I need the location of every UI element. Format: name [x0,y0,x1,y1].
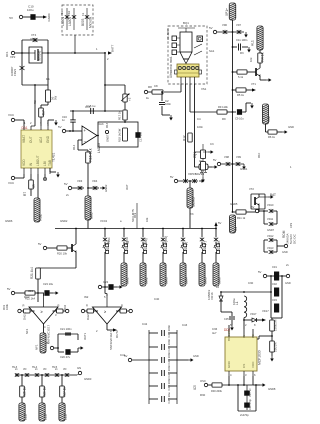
svg-text:VD7: VD7 [236,23,242,27]
svg-text:VD1: VD1 [60,10,64,16]
svg-text:10k: 10k [249,57,253,62]
svg-text:5V: 5V [218,221,222,225]
svg-text:C41: C41 [120,353,126,357]
svg-text:SN74LVC1G17: SN74LVC1G17 [109,330,113,350]
svg-text:C49 10u: C49 10u [167,392,171,403]
svg-text:R9 110k: R9 110k [218,105,228,109]
svg-text:GND8: GND8 [268,387,276,391]
svg-text:R4 1k: R4 1k [260,52,264,62]
svg-text:DA2.2: DA2.2 [86,312,90,320]
svg-text:VD8: VD8 [224,155,230,159]
svg-text:VD: VD [63,368,67,371]
svg-text:L2: L2 [216,285,220,289]
svg-text:GND5: GND5 [230,202,238,206]
svg-text:150k/1%: 150k/1% [274,319,278,331]
svg-text:SW4: SW4 [185,277,189,284]
svg-text:LED: LED [44,413,48,420]
svg-text:GND: GND [193,354,199,358]
svg-text:DA2: DA2 [24,295,30,299]
svg-text:1k: 1k [32,184,36,188]
svg-text:CS: CS [242,364,246,368]
svg-text:VT2: VT2 [249,187,254,191]
svg-text:C21 100n: C21 100n [60,327,72,331]
svg-text:VD14: VD14 [107,237,111,244]
svg-text:R: R [23,304,25,308]
svg-text:LM258: LM258 [97,143,101,153]
svg-text:R27 1k: R27 1k [63,387,67,397]
svg-text:VD3: VD3 [77,179,83,183]
svg-text:VD17: VD17 [250,312,257,316]
svg-text:HL1: HL1 [251,40,255,46]
svg-text:R30 200k: R30 200k [211,389,223,393]
svg-text:GND6: GND6 [5,219,13,223]
svg-text:X4: X4 [234,227,238,231]
svg-text:VD2: VD2 [67,10,71,16]
svg-text:RF1: RF1 [5,51,9,57]
svg-text:S1: S1 [126,240,130,244]
svg-text:R7: R7 [23,192,27,196]
svg-text:100n: 100n [165,102,171,106]
svg-text:GND2: GND2 [104,184,108,192]
svg-text:C9 10u: C9 10u [235,117,244,121]
svg-text:C32: C32 [272,282,277,286]
svg-text:SW3: SW3 [165,277,169,284]
svg-text:R2: R2 [33,100,37,104]
svg-text:HL5: HL5 [52,365,58,369]
svg-text:C44 100n: C44 100n [167,324,171,337]
svg-text:R26 1k: R26 1k [43,387,47,397]
svg-text:R21 4k4: R21 4k4 [30,267,34,279]
svg-text:VT3: VT3 [30,37,36,41]
svg-text:MIC: MIC [90,212,94,219]
svg-text:R12: R12 [182,135,186,141]
svg-text:2x470p: 2x470p [240,413,249,417]
svg-text:LED: LED [64,413,68,420]
svg-text:R1: R1 [46,77,50,81]
svg-text:VCC: VCC [8,113,14,117]
svg-text:C38 470p: C38 470p [248,398,252,410]
svg-text:GND: GND [46,135,50,143]
svg-text:BOOST: BOOST [227,330,231,341]
svg-text:DA1: DA1 [22,126,28,130]
svg-text:5V: 5V [251,205,255,209]
svg-text:R19: R19 [133,212,137,218]
svg-text:5W: 5W [54,95,58,100]
svg-text:R: R [58,304,60,308]
svg-text:HL3: HL3 [12,365,18,369]
svg-text:1n: 1n [62,118,65,122]
svg-text:5V: 5V [46,341,50,345]
svg-text:R17 1k: R17 1k [118,111,122,120]
svg-text:C3: C3 [210,142,214,146]
svg-text:5V: 5V [38,242,42,246]
svg-text:SW2: SW2 [145,277,149,284]
svg-text:R: R [86,304,88,308]
svg-text:C22: C22 [103,280,109,284]
svg-text:4u7: 4u7 [212,331,217,335]
svg-text:Microtik: Microtik [89,16,93,28]
svg-text:HC-SR04: HC-SR04 [166,28,170,40]
svg-text:C15: C15 [85,105,91,109]
svg-text:C33: C33 [272,298,277,302]
svg-text:R13: R13 [105,122,109,128]
svg-text:GND9: GND9 [47,13,51,21]
svg-text:R8: R8 [148,85,152,89]
svg-text:GND7: GND7 [106,134,110,142]
svg-text:1N5819: 1N5819 [207,289,211,300]
svg-text:DA3: DA3 [98,122,104,126]
svg-text:VD5/BAV99: VD5/BAV99 [188,172,204,176]
svg-text:VCC: VCC [8,181,14,185]
svg-text:C31: C31 [272,265,277,269]
svg-text:C40: C40 [154,297,160,301]
svg-text:X3: X3 [190,212,194,216]
svg-text:100u: 100u [232,298,236,305]
svg-text:GND: GND [285,281,291,285]
svg-text:IN2: IN2 [84,295,89,299]
svg-text:C23: C23 [28,289,34,293]
svg-text:R5 1k: R5 1k [237,93,245,97]
svg-text:GND7: GND7 [267,228,275,232]
svg-text:C48 100n: C48 100n [167,377,171,390]
svg-text:IN: IN [242,335,246,338]
svg-text:10k: 10k [145,217,149,222]
svg-text:C42: C42 [142,322,148,326]
svg-text:BQ1: BQ1 [183,21,189,25]
svg-text:R10: R10 [257,152,261,158]
svg-text:TL431: TL431 [52,153,56,162]
svg-text:MCP1630: MCP1630 [258,350,262,365]
svg-text:GND: GND [288,125,294,129]
svg-text:VD: VD [43,368,47,371]
svg-text:5V: 5V [58,125,62,129]
svg-text:LED: LED [24,413,28,420]
svg-text:5V: 5V [64,182,68,186]
svg-text:GND2: GND2 [60,219,68,223]
svg-text:VDD: VDD [251,361,255,368]
svg-text:+2: +2 [128,97,132,101]
svg-text:BAT: BAT [270,193,276,197]
svg-text:5V: 5V [170,175,174,179]
svg-text:FB: FB [251,334,255,338]
svg-text:16k/1%: 16k/1% [274,342,278,352]
svg-text:C43: C43 [182,323,188,327]
svg-text:VD4: VD4 [92,179,98,183]
svg-text:5V: 5V [209,26,213,30]
svg-text:C45 100n: C45 100n [167,338,171,351]
svg-text:R14: R14 [72,144,76,150]
svg-text:100u: 100u [27,8,34,12]
svg-text:C23 10u: C23 10u [43,282,54,286]
svg-text:S4 W(fns): S4 W(fns) [164,236,168,250]
svg-text:ADJ: ADJ [39,137,43,143]
svg-text:NF1: NF1 [35,344,39,350]
svg-text:VT1: VT1 [251,82,256,86]
svg-text:SW1: SW1 [126,277,130,284]
svg-text:R9: R9 [222,117,226,121]
svg-text:GN: GN [77,366,81,370]
svg-text:HL2: HL2 [267,116,271,122]
svg-text:C20 47u: C20 47u [60,355,71,359]
svg-text:LA001: LA001 [61,17,65,26]
svg-text:VD10: VD10 [267,203,274,207]
svg-text:R25 1k: R25 1k [23,387,27,397]
svg-text:R32: R32 [63,304,67,310]
svg-text:SW5: SW5 [204,277,208,284]
svg-text:C17 10u: C17 10u [139,131,143,142]
svg-text:HL4: HL4 [32,365,38,369]
svg-text:LBI: LBI [43,161,47,166]
svg-text:LBOUT: LBOUT [36,155,40,166]
svg-text:XS1: XS1 [201,87,207,91]
svg-text:C47 100n: C47 100n [167,364,171,377]
svg-text:SENS: SENS [192,196,196,207]
svg-text:5.1k: 5.1k [238,75,244,79]
svg-text:IRF9540: IRF9540 [38,50,42,61]
svg-text:OUT1: OUT1 [83,332,87,340]
svg-text:GND: GND [282,250,288,254]
svg-text:R11 1k: R11 1k [237,216,246,220]
svg-text:ZQ1: ZQ1 [193,152,197,158]
svg-text:SA1: SA1 [209,49,215,53]
svg-text:B003: B003 [81,18,85,26]
svg-text:C11 100n: C11 100n [236,38,248,42]
svg-text:OUT: OUT [29,136,33,143]
svg-text:DA2.1: DA2.1 [23,312,27,320]
svg-text:VD9: VD9 [236,155,242,159]
svg-text:Ultrasonic mod.: Ultrasonic mod. [169,56,173,78]
svg-text:VD6: VD6 [222,23,228,27]
svg-text:GND: GND [227,360,231,368]
svg-text:5V: 5V [258,270,262,274]
svg-text:K1: K1 [81,12,85,16]
svg-text:BATT: BATT [111,45,115,52]
svg-text:R: R [121,304,123,308]
svg-text:VCC2: VCC2 [100,219,108,223]
svg-text:R30: R30 [200,393,206,397]
svg-text:1N4007: 1N4007 [10,66,14,76]
svg-text:C35: C35 [224,317,229,321]
svg-text:LA004: LA004 [68,17,72,26]
svg-text:5V: 5V [213,158,217,162]
svg-text:GND1: GND1 [240,167,248,171]
svg-text:GND3: GND3 [84,377,92,381]
svg-text:100n: 100n [197,125,203,129]
svg-text:R16 51k: R16 51k [89,148,93,162]
svg-text:VD13: VD13 [267,246,274,250]
svg-text:C46 100n: C46 100n [167,351,171,364]
svg-text:SW6: SW6 [218,277,222,284]
svg-text:4k7: 4k7 [42,110,46,116]
svg-text:R20 10k: R20 10k [57,252,68,256]
svg-text:OUT: OUT [125,184,129,190]
svg-text:S5 (-): S5 (-) [184,242,188,250]
svg-text:C8: C8 [154,84,158,88]
svg-text:C37 1n: C37 1n [248,388,252,397]
svg-text:S7 OK: S7 OK [217,240,221,250]
svg-text:XP3: XP3 [289,222,293,228]
svg-text:R18 1k/1W: R18 1k/1W [118,128,122,142]
svg-text:XS2: XS2 [39,214,43,221]
svg-text:NF1: NF1 [25,328,29,334]
svg-text:VD: VD [23,368,27,371]
svg-text:OSC: OSC [200,379,206,383]
svg-text:C36: C36 [212,327,218,331]
svg-text:C30: C30 [248,281,254,285]
svg-text:OUT2: OUT2 [115,330,119,338]
svg-text:100k: 100k [5,304,9,310]
svg-text:XP2: XP2 [10,55,16,59]
svg-text:C4: C4 [197,117,201,121]
svg-text:VD12: VD12 [267,234,274,238]
svg-text:R3: R3 [240,51,244,55]
svg-text:VBAT: VBAT [22,135,26,143]
svg-text:S6 (+): S6 (+) [203,241,207,250]
svg-text:VDD: VDD [22,159,26,166]
svg-text:VD11: VD11 [267,217,274,221]
svg-text:S3 (Rst): S3 (Rst) [144,238,148,250]
svg-text:VD17: VD17 [262,309,269,313]
svg-text:5V: 5V [7,287,11,291]
svg-text:IC5: IC5 [193,385,197,390]
svg-text:DC-DC: DC-DC [293,233,297,244]
svg-text:R6 1k: R6 1k [268,135,276,139]
